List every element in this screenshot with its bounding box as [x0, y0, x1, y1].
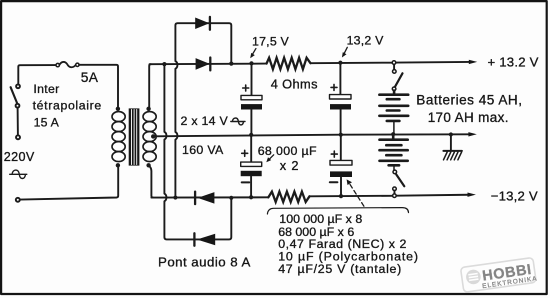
svg-text:2 x 14 V: 2 x 14 V [181, 114, 229, 128]
battery BT2 lower stack [380, 134, 408, 170]
transformer T1 primary top junction dot [116, 107, 120, 111]
AC sine symbol after 2 x 14 V [231, 118, 245, 125]
C4 negative plate [330, 171, 352, 177]
svg-text:5A: 5A [81, 70, 99, 85]
junction dot middle rail / ground stub [449, 132, 453, 136]
junction dot middle rail / batteries [391, 132, 395, 136]
dashed leader arrowhead at C4 [347, 179, 352, 185]
svg-text:47 µF/25 V (tantale): 47 µF/25 V (tantale) [278, 262, 402, 276]
wire: switch middle contact to mains terminal [17, 108, 19, 136]
S3 stub [393, 191, 395, 194]
net A: secondary top wire down to negative rectifier (hops crossings) [164, 64, 231, 239]
transformer secondary center tap dot [151, 134, 155, 138]
svg-text:17,5 V: 17,5 V [252, 34, 290, 48]
S3 lever [396, 174, 404, 186]
capacitor list text [278, 212, 419, 276]
diode D2 on + rail [196, 58, 211, 71]
svg-text:x 2: x 2 [280, 158, 299, 173]
C4 positive plate [330, 160, 352, 165]
node B junction dot on - rail [173, 195, 177, 199]
transformer T1 primary bottom junction dot [116, 163, 120, 167]
fuse terminal circle right [76, 63, 79, 66]
wire: secondary bottom lead down to - rail [150, 167, 153, 198]
svg-text:−13,2 V: −13,2 V [491, 189, 538, 204]
C4 bottom lead [340, 177, 342, 196]
net B: secondary bottom wire up to positive rectifier (hops crossings) [175, 23, 231, 197]
battery switch S2 contact circle on + rail [392, 61, 396, 65]
battery switch S3 top circle [393, 170, 397, 174]
wire: mains neutral to transformer primary bottom [20, 166, 118, 200]
transformer T1 primary winding [112, 112, 125, 162]
wire: 0V middle rail from center tap to ground and arrow [153, 134, 470, 136]
junction dot middle rail / C1-C2 [249, 133, 253, 137]
S2 stub [393, 64, 395, 69]
svg-text:68 000 µF: 68 000 µF [258, 144, 317, 158]
fuse F1 5A wavy link [59, 62, 75, 67]
leader arrow from 68 000 uF to C2 [266, 155, 273, 163]
ground symbol [443, 135, 462, 160]
junction dot: D1 cathode to + rail [229, 62, 233, 66]
node A junction dot on + diode rail [162, 62, 166, 66]
arrowhead - output [468, 193, 476, 197]
leader arrow from 13,2 V to rail [342, 47, 347, 57]
junction dot - rail / C2 [249, 195, 253, 199]
wire: mains phase top from switch to fuse [18, 65, 56, 84]
mains input terminal upper circle [16, 135, 20, 139]
transformer T1 secondary winding [143, 112, 156, 162]
svg-text:tétrapolaire: tétrapolaire [33, 99, 102, 113]
capacitor C1 68000uF upper left: lead [251, 63, 253, 95]
bracket over capacitor list [267, 208, 408, 214]
svg-text:170 AH max.: 170 AH max. [428, 110, 509, 125]
C2 plus sign [242, 150, 248, 156]
mains input terminal lower circle [16, 198, 20, 202]
svg-text:Batteries 45 AH,: Batteries 45 AH, [416, 93, 522, 108]
battery BT1 upper stack [379, 91, 408, 134]
resistor R2 on - rail [268, 192, 309, 202]
diode D1 top of bridge [195, 17, 210, 30]
capacitor C3 upper right: lead [339, 63, 341, 95]
watermark logo HOBBI ELEKTRONIKA [460, 257, 538, 292]
fuse terminal circle left [56, 63, 59, 66]
capacitor C4 lower right: lead [340, 135, 342, 160]
C3 positive plate [330, 95, 352, 99]
resistor R1 4 Ohms [267, 58, 311, 69]
svg-text:Inter: Inter [33, 82, 59, 96]
switch S1 mains contact top circle [16, 84, 20, 88]
junction dot middle rail / C3-C4 [339, 133, 343, 137]
C2 negative plate [241, 171, 262, 176]
junction dot: D3 anode to - rail [229, 196, 233, 200]
C1 bottom lead [250, 110, 252, 135]
wire: - rail to switch [310, 195, 393, 198]
wire: + rail left section [150, 63, 267, 66]
arrowhead + output [469, 60, 477, 64]
wire: + rail after switch with output arrow [396, 61, 470, 64]
label 68 000 uF x 2 [258, 144, 317, 173]
S3 middle circle [393, 187, 397, 191]
leader arrow from 17,5 V to rail [250, 49, 256, 59]
S2 lever [395, 73, 403, 87]
svg-text:4 Ohms: 4 Ohms [271, 77, 318, 92]
transformer secondary bottom junction dot [146, 163, 150, 167]
C2 minus sign [242, 181, 250, 183]
C4 plus sign [331, 151, 337, 157]
svg-text:100 000 µF x 8: 100 000 µF x 8 [279, 212, 362, 226]
S2 lower contact circle [393, 70, 397, 74]
C2 bottom lead [250, 176, 252, 197]
C2 positive plate [241, 162, 262, 166]
wire: - rail left section [151, 196, 268, 198]
wire: + rail right section to switch [311, 62, 393, 65]
C3 negative plate [330, 104, 351, 109]
junction dot - rail / C4 [339, 194, 343, 198]
C1 negative plate [241, 104, 262, 109]
svg-text:15 A: 15 A [34, 116, 60, 130]
C3 bottom lead [340, 110, 342, 135]
S2 pivot circle on battery [392, 87, 396, 91]
junction dot + rail / C1 [249, 61, 253, 65]
dashed leader from capacitor list to C4 [350, 184, 364, 207]
capacitor C2 68000uF lower left: lead [250, 135, 252, 162]
svg-text:+ 13.2 V: + 13.2 V [488, 54, 539, 69]
label Inter tetrapolaire 15 A [33, 82, 102, 129]
C4 minus sign [330, 181, 338, 183]
S3 contact circle on - rail [393, 194, 397, 198]
svg-text:13,2 V: 13,2 V [347, 34, 385, 48]
junction dot + rail / C3 [338, 61, 342, 65]
AC sine symbol under 220V [10, 170, 27, 178]
svg-text:220V: 220V [4, 150, 35, 164]
wire: secondary top lead up to + rectifier rail [149, 64, 151, 107]
svg-text:Pont audio 8 A: Pont audio 8 A [158, 255, 251, 270]
C3 plus sign [331, 84, 337, 90]
svg-text:160 VA: 160 VA [182, 143, 224, 157]
arrowhead 0V rail [468, 132, 476, 136]
wire: - rail after switch with output arrow [396, 194, 468, 197]
diode D3 bottom of bridge [194, 233, 215, 245]
switch S1 middle contact circle [16, 104, 20, 108]
C1 plus sign [243, 85, 249, 91]
transformer T1 laminated core [129, 108, 140, 165]
wire: fuse to transformer primary top [79, 65, 118, 107]
diode D4 on - rail [195, 192, 214, 205]
C1 positive plate [241, 95, 262, 99]
transformer secondary top junction dot [146, 107, 150, 111]
switch S1 lever [11, 87, 18, 103]
